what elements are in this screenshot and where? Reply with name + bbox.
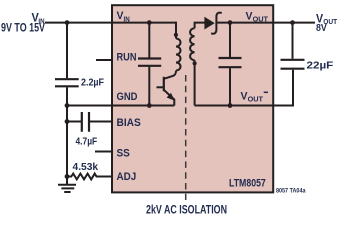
transistor Q1 base stub <box>157 86 164 88</box>
svg-text:4.53k: 4.53k <box>73 162 99 173</box>
wire SS pin stub <box>95 151 113 153</box>
node junction VIN/C1 <box>65 20 70 25</box>
svg-text:RUN: RUN <box>117 52 137 64</box>
diode D1 triangle <box>204 17 214 30</box>
wire RUN pin stub <box>96 59 113 61</box>
wire secondary bottom to VOUT- rail <box>194 60 196 105</box>
transformer T1 primary phase dot <box>174 33 178 37</box>
svg-text:BIAS: BIAS <box>117 117 141 129</box>
svg-text:OUT: OUT <box>253 14 269 23</box>
wire primary top vertical <box>175 22 177 39</box>
wire GND pin rail <box>67 105 174 107</box>
wire internal input cap top <box>148 23 150 58</box>
pin label VOUT- superscript minus <box>264 91 268 93</box>
capacitor C3 22uF plates <box>281 60 305 69</box>
wire primary bottom tail to Q1 collector <box>164 71 176 79</box>
diode D1 schottky cathode <box>211 13 222 34</box>
transformer T1 secondary winding <box>190 28 195 60</box>
capacitor C1 2.2uF plates <box>55 79 79 86</box>
wire VOUT- rail <box>195 70 293 106</box>
svg-text:IN: IN <box>124 14 130 23</box>
wire C3 top <box>292 23 294 59</box>
svg-text:22µF: 22µF <box>307 60 334 71</box>
svg-text:SS: SS <box>117 148 130 160</box>
wire external vertical bus lower (C1 bottom to ADJ node) <box>66 87 68 176</box>
capacitor internal input cap plates <box>138 59 161 66</box>
transistor Q1 base bar <box>163 77 165 91</box>
wire internal input cap bottom <box>148 67 150 106</box>
node junction VOUT-/internal cap <box>228 103 233 108</box>
svg-text:LTM8057: LTM8057 <box>229 178 266 190</box>
wire internal output cap bottom <box>229 68 231 105</box>
transistor Q1 emitter arrowhead <box>167 93 175 101</box>
capacitor internal output cap plates <box>219 58 242 67</box>
svg-text:ADJ: ADJ <box>117 171 137 183</box>
wire VOUT top rail <box>216 22 315 24</box>
node junction GND/internal cap <box>147 103 152 108</box>
node junction VIN/internal cap <box>147 20 152 25</box>
wire external vertical bus upper (to C1 top plate) <box>66 23 68 79</box>
svg-text:2kV AC ISOLATION: 2kV AC ISOLATION <box>146 204 227 216</box>
wire VIN lead and top rail to transformer <box>45 22 176 24</box>
module U1 LTM8057 body <box>112 5 273 192</box>
transformer T1 secondary phase dot <box>193 61 197 65</box>
node junction BIAS <box>65 119 70 124</box>
wire secondary top corner to diode <box>195 23 205 29</box>
node junction diode/internal cap <box>228 20 233 25</box>
svg-text:4.7µF: 4.7µF <box>76 137 98 148</box>
isolation barrier dashed line <box>185 75 187 200</box>
svg-text:GND: GND <box>117 91 138 103</box>
node junction ADJ/ground <box>65 174 70 179</box>
ground symbol <box>58 177 76 193</box>
transistor Q1 emitter <box>164 90 175 106</box>
transformer T1 primary winding <box>176 39 181 71</box>
svg-text:2.2µF: 2.2µF <box>81 78 104 89</box>
capacitor C2 4.7uF plates <box>82 112 89 132</box>
wire internal output cap top <box>229 23 231 57</box>
svg-text:9V TO 15V: 9V TO 15V <box>1 21 45 35</box>
resistor R1 4.53k <box>67 174 113 180</box>
wire BIAS lead <box>67 121 81 123</box>
wire BIAS lead right to pin <box>90 121 113 123</box>
svg-text:8V: 8V <box>316 23 327 34</box>
node junction VOUT/C3 <box>290 20 295 25</box>
svg-text:OUT: OUT <box>248 95 264 104</box>
node junction GND/C1 <box>65 103 70 108</box>
svg-text:8057 TA04a: 8057 TA04a <box>276 188 306 195</box>
